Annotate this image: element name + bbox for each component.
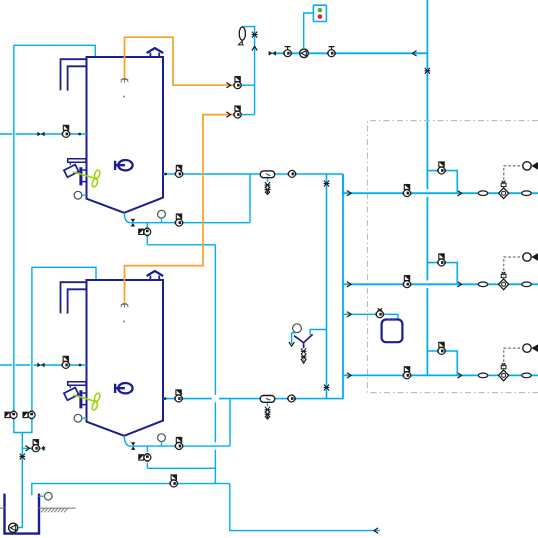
wire bypass loop row 1 [427,171,457,194]
wire riser x=326.5 [326,174,328,399]
cap at sample stub end [42,446,45,451]
junction node at T1 side outlet [164,173,166,175]
wire side outlet line y=398.6 tank T2 [163,398,343,400]
valve DV1 on drain header [170,475,178,487]
signal line to instrument row 3 [504,348,523,367]
valve XV3 on T1 cone outlet line [175,214,183,226]
butterfly disc at tank T1 outlet [131,219,135,227]
wire bypass loop row 2 [427,263,457,285]
sight glass capsule SG1 with drain [260,171,274,195]
agitator M1 on tank T1 [64,159,101,188]
valve SV3 on sample stub [32,440,40,452]
lens gasket row 1 right [522,191,531,196]
wire manifold row 2 main [343,283,538,285]
flow arrow on row 1 (at riser) [347,191,351,196]
wire drain drop x=229.8 and run y=530.6 [230,484,380,531]
drip dot in tank T2 [123,321,125,323]
wire drain riser x=215.4 [214,245,216,484]
signal line to instrument row 1 [504,166,523,185]
valve XV8 on T2 cone outlet line [175,437,183,449]
valve RV1b on bypass row 1 [438,162,446,174]
spray symbol on pit feed line [19,454,25,460]
lens gasket row 2 right [522,282,531,287]
instrument I2 row 2 [523,253,538,261]
lens gasket row 3 left [478,373,487,378]
control valve CV1 on row 1 [499,181,509,199]
valve XV5 after capsule SG1 [288,170,296,177]
wire valve YV2 to vent riser [241,114,254,116]
flow arrow on row 2 [457,282,461,287]
flow arrow on row 1 [457,191,461,196]
coupling on inlet line tank T2 [37,363,44,368]
wire cone outlet tank T2 [124,436,230,446]
lens gasket row 3 right [522,373,531,378]
sensor circle on tank T1 lower wall [74,191,86,199]
valve YV2 (CIP return tank2) [234,106,242,118]
coupling on pump line [269,51,276,56]
valve RV2a on row 2 [403,276,411,288]
signal line to instrument row 2 [504,257,523,276]
junction node at tank T1 inlet [78,133,80,135]
skid boundary (dashed box) [368,121,538,393]
valve XV1 on inlet line tank T1 [62,125,70,137]
wire funnel left inlet [292,333,296,344]
valve YV1 (CIP return tank1) [234,77,242,89]
spray symbols below funnel [301,348,307,360]
spray symbol on riser x=326.5 bottom [324,385,330,391]
valve XV7 on T2 side outlet [175,390,183,402]
valve BV1 on vessel branch [376,308,384,317]
spray symbol on CIP riser [425,68,431,74]
funnel inlet circle [293,324,302,333]
wire feed line to tank 1 (cyan riser x=13.8 and top run) [14,45,96,411]
sensor circle on tank T2 lower wall [74,414,86,422]
air vent device (oval) [238,27,246,45]
valve SV1 on feed riser x=13.8 [5,411,17,419]
wire drain header y=483.6 to pit [32,484,230,496]
valve RV2b on bypass row 2 [438,254,446,266]
flow arrow on row 2 (at riser) [347,282,351,287]
coupling on inlet line tank T1 [37,132,44,137]
tank T2 shell [87,280,164,436]
control valve CV3 on row 3 [499,363,509,381]
valve RV3a on row 3 [403,367,411,379]
flow arrow on sample stub [25,446,29,451]
instrument I1 row 1 [523,162,538,170]
valve XV6 on inlet line tank T2 [62,356,70,368]
valve HV2 after pump P1 [328,47,336,57]
wire sample stub [22,447,43,449]
agitator symbol (Yu mark) in tank T2 [115,383,133,393]
level device circle above T2 outlet line [158,434,166,446]
wire drain run y=468.3 [147,467,215,469]
spray nozzle SB1 in tank T1 [121,79,129,83]
wire control line pump P1 to starter box [304,13,314,49]
junction node at tank T2 inlet [79,364,81,366]
lens gasket row 2 left [478,282,487,287]
agitator symbol (Yu mark) in tank T1 [115,160,133,170]
ground level hatching [0,508,76,512]
dosing vessel B1 [382,320,403,343]
wire side outlet line y=174 tank T1 [163,173,343,175]
wire bypass loop row 3 [427,351,457,375]
flow arrow into valve YV2 [226,112,230,117]
valve RV3b on bypass row 3 [438,342,446,354]
dip tubes on tank T2 [61,282,87,313]
spray symbol on vent riser [252,32,258,38]
flow arrow on vessel branch [347,312,351,317]
wire drop leg x=250 (y174 to y222.7) [249,174,251,223]
drip dot in tank T1 [123,96,125,98]
valve HV1 before pump P1 [284,47,292,57]
spray symbol on riser x=326.5 top [324,181,330,187]
motor starter box for pump P1 [313,5,326,21]
agitator M2 on tank T2 [64,382,101,411]
vent V2 on tank T2 [147,271,164,280]
valve XV2 on T1 side outlet [175,165,183,177]
valve XV9 on T2 drain tee [139,454,151,462]
flow arrow down into funnel [289,342,294,346]
wire feed risers merge to pit [14,419,32,528]
wire CIP supply riser x=427.4 [426,0,428,375]
control valve CV2 on row 2 [499,272,509,290]
instrument I3 row 3 [523,344,538,352]
butterfly disc at tank T2 outlet [131,442,135,450]
flow arrow into valve YV1 [226,83,230,88]
wire drain run y=244.8 [147,244,215,246]
flow arrow on pump line (left) [412,51,416,56]
junction node at T2 side outlet [164,397,166,399]
wire CIP spray line to tank T1 (orange) [125,37,234,85]
sight glass capsule SG2 with drain [260,396,274,420]
wire valve YV1 to vent riser [241,84,254,86]
wire cone outlet tank T1 [124,213,250,223]
wire drain tee x=147.3 below T1 [146,223,148,245]
wire drain tee x=147.4 below T2 [146,446,148,468]
flow arrow on row 3 (at riser) [347,373,351,378]
wire manifold row 3 main [343,374,538,376]
level sensor circle on pit wall [39,492,52,500]
level device circle above T1 outlet line [158,210,166,222]
pump P1 [300,49,309,58]
pit (sump) walls [5,494,40,534]
flow arrow up on vent riser [252,46,257,50]
dip tubes on tank T1 [61,59,87,90]
wire branch to vessel B1 [343,314,398,321]
wire inlet line y=365 to tank T2 [0,364,87,366]
lens gasket row 1 left [478,191,487,196]
valve RV1a on row 1 [403,185,411,197]
sump pump P2 [9,523,18,532]
vent V1 on tank T1 [147,48,164,57]
wire feed line to tank 2 (cyan riser x=31.9 and top run) [32,267,96,411]
wire branch to funnel [310,330,326,335]
tank T1 shell [87,57,164,213]
flow arrow on row 3 [457,373,461,378]
wire vent riser x=254.6 [242,27,254,115]
valve XV10 after capsule SG2 [288,395,296,402]
wire riser x=343 (manifold feed) [342,174,344,399]
wire CIP spray line to tank T2 (orange) [125,115,234,304]
wire drop leg x=230 (y398.6 to y446.1) [229,399,231,447]
spray nozzle SB2 in tank T2 [121,304,129,308]
drain arrow below funnel [301,359,306,364]
flow arrow on bottom drain run [374,528,378,533]
wire inlet line y=134 to tank T1 [0,133,87,135]
valve XV4 on T1 drain tee [139,228,151,236]
wire manifold row 1 main (from riser corner) [343,174,538,193]
wire pump suction/discharge line y=53.3 [269,52,428,54]
funnel (tundish) [294,334,313,348]
valve SV2 on feed riser x=31.9 [23,411,35,419]
